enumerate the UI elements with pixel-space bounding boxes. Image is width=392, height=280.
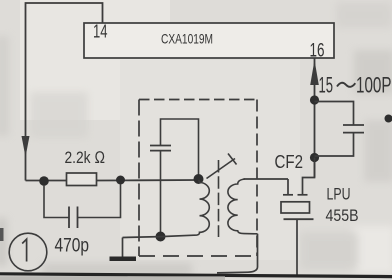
dashed box IFT unit left edge <box>138 100 140 257</box>
wire left rail to node A <box>26 180 68 182</box>
svg-text:LPU: LPU <box>327 185 351 203</box>
svg-text:15: 15 <box>319 73 334 98</box>
svg-text:14: 14 <box>93 22 108 42</box>
wire left drop <box>44 185 69 218</box>
figure number circle 1 <box>9 233 47 271</box>
dark mark left edge <box>0 228 4 241</box>
ground <box>110 257 137 262</box>
transformer T1 secondary winding <box>228 179 258 234</box>
node ground wire junction <box>156 232 166 242</box>
node T1 primary top <box>194 174 204 184</box>
dashed box IFT unit bottom edge <box>139 255 257 257</box>
transformer T1 primary winding <box>194 180 209 235</box>
svg-text:CXA1019M: CXA1019M <box>161 31 213 47</box>
capacitor C3 (inside IFT) top loop wire <box>161 119 199 176</box>
svg-text:455B: 455B <box>326 206 359 225</box>
capacitor C1 15~100P branch wires <box>315 102 354 125</box>
wire node B to transformer primary <box>139 179 199 181</box>
svg-text:2.2k Ω: 2.2k Ω <box>65 148 106 167</box>
node: pin16 rail lower junction <box>310 153 319 162</box>
wire lower junction to CF2 right terminal <box>303 158 315 195</box>
ink dot artifact right edge <box>385 115 392 123</box>
node: pin16 rail upper junction <box>310 95 319 104</box>
capacitor C2 470p branch <box>44 184 121 228</box>
capacitor C1 plates <box>343 124 364 126</box>
wire pin14 to left rail <box>26 3 103 181</box>
ceramic filter CF2 body <box>281 202 310 213</box>
svg-text:470p: 470p <box>55 235 90 256</box>
ground wire <box>123 235 195 237</box>
wire pin16 vertical rail <box>314 58 316 178</box>
capacitor C2 plates <box>68 207 70 229</box>
svg-text:CF2: CF2 <box>275 151 304 172</box>
dashed box IFT unit right edge <box>256 100 258 257</box>
ceramic filter CF2 left terminal <box>283 179 308 195</box>
ceramic filter CF2 ground lead <box>296 219 298 276</box>
capacitor C3 plates <box>150 145 171 147</box>
arrow into pin 16 (pointing up) <box>310 60 319 85</box>
node B dot <box>116 176 125 185</box>
svg-text:100P: 100P <box>356 73 392 98</box>
arrow on left rail (pointing down) <box>22 136 30 157</box>
node A dot <box>39 176 49 186</box>
bottom photo crop line <box>0 274 392 277</box>
wire secondary top to CF2 <box>244 178 289 180</box>
trimmer arrow of T1 <box>207 159 236 179</box>
resistor R 2.2k ohm <box>67 173 97 186</box>
capacitor C3 bottom lead <box>160 151 162 237</box>
op IC U1 CXA1019M <box>84 23 334 58</box>
ceramic filter CF2 right terminal <box>298 194 308 196</box>
wire secondary bottom down <box>217 234 258 273</box>
ground lead <box>122 238 124 257</box>
svg-text:16: 16 <box>310 41 325 62</box>
transformer T1 core (dashed) <box>218 160 220 237</box>
ceramic filter CF2 bottom plate <box>284 218 314 220</box>
trimmer crossbar <box>228 154 237 165</box>
wire right drop <box>78 184 121 218</box>
dashed box IFT unit top edge <box>139 99 257 101</box>
wire resistor to node B <box>97 179 140 181</box>
